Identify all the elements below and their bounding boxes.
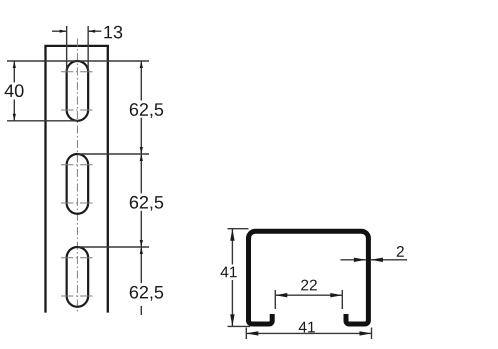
- dimension 62,5 (second) line and arrows: [140, 154, 142, 193]
- extension line at slot2 top (62,5): [77, 153, 149, 155]
- dimension 62,5 (third, open-ended) line and arrow: [140, 247, 142, 283]
- dimension 62,5 (first) line and arrows: [140, 61, 142, 101]
- dimension 13 extension lines: [66, 26, 68, 72]
- C-profile cross-section: [249, 231, 369, 324]
- profile 41 height: extension lines: [228, 228, 249, 230]
- profile 41 height: dimension line and arrows: [231, 229, 233, 265]
- slot opening 22 label: [301, 280, 317, 291]
- slot 2 arc centerlines: [61, 164, 94, 166]
- slot 1: [67, 61, 89, 121]
- slot 1 arc centerlines: [61, 71, 94, 73]
- extension line at slot3 top (62,5): [77, 246, 149, 248]
- slot 3: [67, 247, 89, 307]
- profile width 41: extension lines: [245, 328, 247, 340]
- dimension 13 label: [104, 26, 122, 39]
- dimension 62,5 (second) label: [130, 196, 163, 211]
- dimension 40 line and arrows: [13, 61, 15, 83]
- slot 2: [67, 154, 89, 214]
- dimension 13 dimension line and arrows: [52, 30, 67, 32]
- profile width 41: dimension line and arrows: [246, 332, 371, 334]
- slot 3 arc centerlines: [61, 257, 94, 259]
- thickness 2: leader lines and arrows: [341, 259, 366, 261]
- dimension 62,5 (first) label: [130, 103, 163, 118]
- dimension 62,5 (third) label: [130, 286, 163, 301]
- extension line at slot1 top (shared 40 / 62,5): [7, 60, 149, 62]
- slot opening 22: extension lines: [274, 290, 276, 309]
- dimension 40 label: [5, 84, 24, 97]
- profile width 41 label: [299, 322, 315, 333]
- thickness 2 label: [397, 246, 404, 257]
- slot opening 22: dimension line and arrows: [275, 294, 342, 296]
- vertical centerline of slots: [76, 39, 78, 313]
- strip outline (front view, open bottom): [46, 46, 108, 313]
- profile 41 height label: [221, 267, 237, 278]
- extension line at slot1 bottom (40): [7, 120, 79, 122]
